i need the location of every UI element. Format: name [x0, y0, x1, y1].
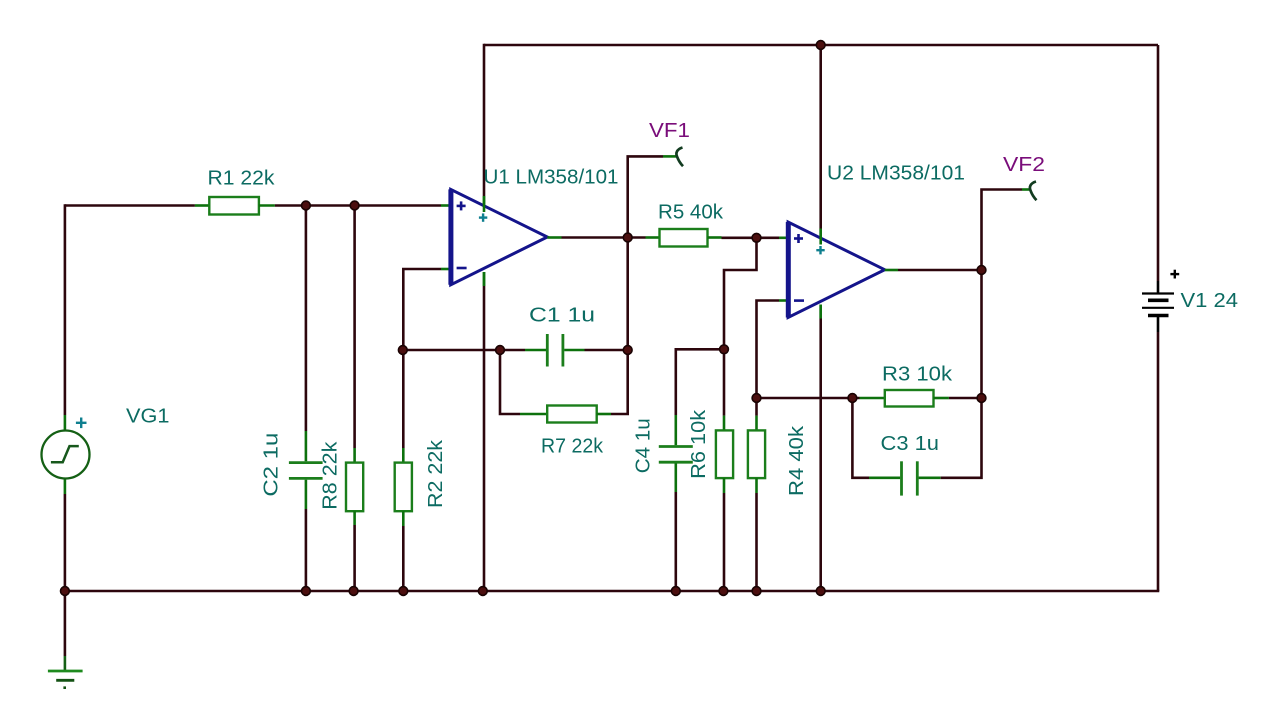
node R3 left / C3	[848, 394, 857, 403]
wire U1 -input step	[403, 269, 441, 448]
pin U2 -input green	[779, 299, 789, 302]
wire R3 row left	[757, 397, 860, 400]
capacitor C2	[289, 431, 323, 509]
probe VF2 hook	[1030, 182, 1037, 201]
wire R4 top	[755, 398, 758, 416]
resistor R1	[195, 197, 275, 215]
wire U1 output to R5	[562, 236, 646, 239]
wire VG1 bottom to rail	[64, 494, 67, 591]
node rail / U2 supply	[816, 587, 825, 596]
wire top supply rail	[484, 44, 1158, 47]
svg-text:U2 LM358/101: U2 LM358/101	[827, 163, 965, 185]
wire right rail lower (battery - to bottom rail)	[1157, 332, 1160, 591]
wire C2 column top	[305, 204, 308, 431]
wire R4 bottom to rail	[755, 493, 758, 591]
wire R1 to U1 +input	[275, 204, 441, 207]
battery V1 bottom pin	[1157, 316, 1160, 333]
VG1 plus mark	[76, 418, 87, 429]
wire R8 column top	[353, 204, 356, 448]
wire U2 supply top	[819, 44, 822, 229]
node U2 out / VF2	[977, 266, 986, 275]
wire VF2 stem	[982, 190, 1023, 272]
op-amp U2	[788, 222, 885, 319]
wire R5 to U2 node	[722, 237, 780, 240]
node rail / VG1	[61, 587, 70, 596]
capacitor C3	[869, 461, 941, 495]
node U2 -in / R4 / R3	[752, 394, 761, 403]
pin VG1 top (green)	[64, 415, 67, 431]
wire U2 output	[898, 269, 982, 272]
wire U2 -input step	[757, 301, 780, 399]
resistor R4	[748, 416, 765, 493]
node rail / U1 supply	[478, 587, 487, 596]
wire bottom ground rail	[64, 590, 1160, 593]
wire R1 row left	[65, 204, 195, 207]
wire C3 branch right	[941, 398, 982, 478]
svg-text:R6 10k: R6 10k	[688, 409, 710, 479]
voltage generator VG1	[42, 431, 90, 479]
pin U1 +input green	[441, 204, 451, 207]
resistor R3	[860, 390, 949, 407]
pin U2 output green	[885, 269, 898, 272]
op-amp U1	[451, 189, 548, 286]
pin U2 V+ green	[819, 229, 822, 245]
node C1 right / out column	[623, 346, 632, 355]
node R3 right / C3 / out column	[977, 394, 986, 403]
resistor R8	[346, 448, 363, 525]
node rail / C4	[671, 587, 680, 596]
svg-text:R7 22k: R7 22k	[541, 436, 604, 458]
wire U2 output column down	[980, 269, 983, 398]
wire C3 branch left	[852, 398, 869, 478]
svg-text:R8 22k: R8 22k	[320, 441, 342, 510]
wire C4 step	[676, 349, 724, 415]
capacitor C1	[525, 334, 585, 367]
svg-text:U1 LM358/101: U1 LM358/101	[484, 167, 619, 189]
node rail / R8	[349, 587, 358, 596]
svg-text:C4 1u: C4 1u	[633, 418, 655, 473]
resistor R6	[716, 416, 733, 493]
wire C2 column bottom	[305, 509, 308, 591]
node top rail / U2 supply	[816, 41, 825, 50]
wire U1 supply bottom to rail	[483, 286, 486, 591]
svg-text:R4 40k: R4 40k	[786, 425, 808, 496]
pin VF2 green	[1022, 188, 1030, 191]
node R5 / U2 +in	[752, 233, 761, 242]
node C1 left / R2	[398, 346, 407, 355]
battery V1	[1142, 294, 1174, 316]
wire U1 output column down	[626, 236, 629, 414]
wire U1 supply top	[483, 44, 486, 196]
wire R6 column	[723, 349, 726, 415]
node rail / R2	[399, 587, 408, 596]
pin U2 +input green	[779, 237, 789, 240]
pin VG1 bottom (green)	[64, 478, 67, 494]
wire ground stub	[64, 591, 67, 656]
probe VF1 hook	[676, 148, 683, 167]
node R1 / R8	[350, 201, 359, 210]
svg-text:R1 22k: R1 22k	[208, 168, 276, 190]
node rail / R4	[752, 587, 761, 596]
wire C1 right to node	[585, 349, 630, 352]
wire C1 row	[403, 349, 525, 352]
node C4 / R6	[720, 345, 729, 354]
node C1 / R7 left	[496, 346, 505, 355]
wire C4 bottom to rail	[674, 492, 677, 591]
svg-text:R5 40k: R5 40k	[658, 202, 724, 224]
ground pin green	[64, 656, 67, 671]
wire left column VG1 top	[64, 204, 67, 415]
node R1 / C2	[302, 201, 311, 210]
node U1 out / VF1	[623, 233, 632, 242]
pin VF1 green	[663, 155, 677, 158]
capacitor C4	[659, 415, 693, 492]
pin U1 V+ green	[483, 196, 486, 212]
svg-text:V1 24: V1 24	[1181, 290, 1239, 312]
wire right rail upper (to battery +)	[1157, 45, 1160, 281]
pin U1 V- green	[483, 272, 486, 286]
battery V1 top pin	[1157, 281, 1160, 294]
resistor R2	[395, 448, 412, 526]
svg-text:VG1: VG1	[126, 406, 170, 428]
resistor R7	[520, 406, 611, 423]
ground symbol	[48, 671, 83, 689]
wire R2 bottom to rail	[402, 526, 405, 591]
wire VF1 stem	[628, 156, 663, 238]
wire U2 +input step	[724, 239, 757, 351]
svg-text:VF1: VF1	[649, 120, 690, 142]
wire R3 row right	[949, 397, 982, 400]
pin U1 -input green	[441, 268, 451, 271]
wire R8 column bottom	[353, 525, 356, 591]
node rail / R6	[719, 587, 728, 596]
wire R7 branch left	[500, 350, 520, 414]
svg-text:C2 1u: C2 1u	[261, 433, 283, 497]
resistor R5	[646, 229, 722, 247]
pin U2 V- green	[819, 305, 822, 319]
svg-text:R3 10k: R3 10k	[882, 364, 953, 386]
wire U2 supply bottom to rail	[819, 319, 822, 592]
wire R6 bottom to rail	[723, 493, 726, 591]
svg-text:C1 1u: C1 1u	[529, 305, 595, 327]
wire R7 right	[611, 413, 629, 416]
svg-text:VF2: VF2	[1003, 154, 1045, 176]
battery V1 plus mark	[1170, 270, 1179, 279]
svg-text:R2 22k: R2 22k	[425, 439, 447, 508]
node rail / C2	[302, 587, 311, 596]
svg-text:C3 1u: C3 1u	[881, 433, 940, 455]
pin U1 output green	[547, 236, 561, 239]
